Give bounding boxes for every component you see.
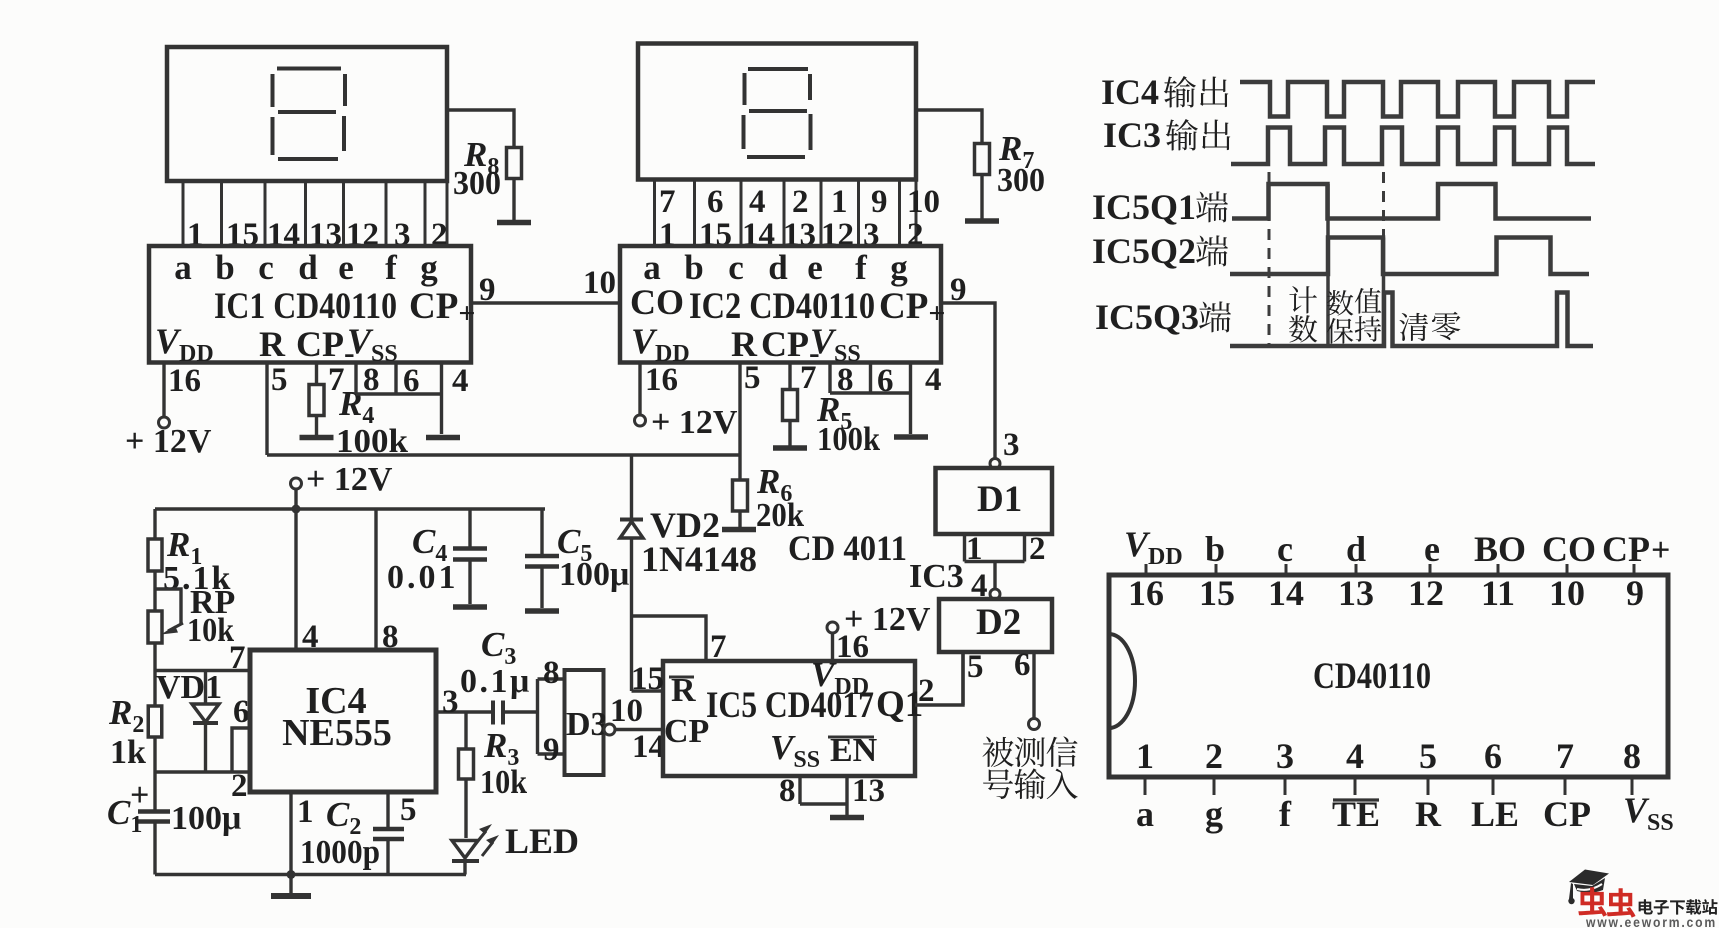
svg-text:12: 12 (1408, 573, 1444, 613)
ground under C4 (453, 604, 487, 610)
svg-text:2: 2 (1029, 531, 1046, 567)
svg-text:5: 5 (1419, 736, 1437, 776)
svg-text:1: 1 (297, 794, 314, 830)
svg-text:d: d (298, 248, 318, 287)
svg-text:8: 8 (382, 619, 399, 655)
svg-text:8: 8 (837, 362, 854, 398)
svg-text:e: e (1424, 529, 1440, 569)
resistor R5 on IC2 pin7 (788, 363, 791, 390)
resistor R4 on IC1 pin7 (315, 363, 318, 385)
svg-text:9: 9 (871, 184, 888, 220)
resistor R7 (916, 110, 982, 144)
svg-text:7: 7 (800, 360, 817, 396)
wire IC5 Q1 to gate D2 pin5 (915, 652, 963, 705)
power rail +12V (155, 507, 545, 510)
wire IC4 pin6 jog (232, 728, 250, 772)
svg-text:6: 6 (877, 363, 894, 399)
svg-text:e: e (807, 248, 823, 287)
wire reset bus R line (267, 453, 740, 456)
svg-text:6: 6 (233, 694, 250, 730)
watermark site name characters (1639, 899, 1653, 914)
svg-text:100μ: 100μ (559, 556, 629, 593)
ground rail bottom (155, 873, 466, 876)
gate D2 box (939, 599, 1052, 652)
wire IC1 pins 8,6 bracket to pin 4 (356, 363, 442, 435)
svg-text:g: g (1205, 794, 1223, 834)
svg-text:NE555: NE555 (282, 712, 392, 754)
svg-text:CD40110: CD40110 (1313, 656, 1431, 697)
svg-text:5: 5 (744, 360, 761, 396)
LED diode (452, 841, 478, 859)
svg-text:CD 4011: CD 4011 (788, 528, 907, 568)
svg-text:2: 2 (792, 184, 809, 220)
watermark graduation cap logo (1568, 870, 1609, 905)
ground under C5 (525, 608, 559, 614)
svg-text:1: 1 (1136, 736, 1154, 776)
terminal +12V IC1 (159, 417, 170, 428)
wire IC2 pin5 R down to R6 (738, 363, 741, 481)
svg-text:8: 8 (363, 362, 380, 398)
gate D1 box (936, 468, 1053, 534)
svg-text:3: 3 (1003, 427, 1020, 463)
junction dot ground rail (287, 870, 296, 879)
wire node to IC4 pin2 (155, 770, 250, 773)
svg-text:CP: CP (1602, 529, 1650, 569)
svg-text:b: b (684, 248, 703, 287)
display DS2 digit segments (744, 69, 811, 157)
dashed marker line count start (1268, 172, 1271, 346)
svg-text:4: 4 (452, 363, 469, 399)
svg-text:3: 3 (1276, 736, 1294, 776)
svg-text:10k: 10k (187, 612, 234, 649)
svg-text:e: e (338, 248, 354, 287)
CD40110 bottom pin numbers 1-8 (1136, 736, 1641, 776)
svg-text:LED: LED (505, 821, 579, 861)
svg-text:1: 1 (831, 184, 848, 220)
junction dot rail (292, 505, 301, 514)
wire VD2 node to IC5 pin15 (632, 689, 664, 692)
svg-text:IC3: IC3 (1103, 115, 1161, 155)
svg-text:c: c (258, 248, 274, 287)
svg-text:R: R (731, 324, 758, 364)
label count region (1289, 286, 1317, 313)
svg-text:LE: LE (1471, 794, 1519, 834)
IC2 pin labels 1 15 14 13 12 3 2 (659, 217, 924, 253)
svg-text:4: 4 (925, 362, 942, 398)
wire bus display DS2 to IC2 pins (655, 180, 917, 247)
terminal +12V rail (291, 478, 302, 489)
svg-text:+ 12V: + 12V (125, 423, 212, 460)
display DS1 (7-segment) box (167, 47, 447, 181)
waveform IC4 output (1240, 82, 1595, 117)
svg-text:+: + (130, 777, 149, 814)
svg-text:3: 3 (442, 684, 459, 720)
label signal input Chinese (982, 737, 1013, 767)
wire VD2 node to IC5 pin7 (632, 616, 707, 661)
svg-text:g: g (890, 248, 908, 287)
timer IC4 NE555 box (250, 650, 436, 792)
wire IC5 pins 8 13 to ground (800, 776, 847, 815)
svg-text:c: c (1277, 529, 1293, 569)
svg-text:1N4148: 1N4148 (641, 539, 757, 579)
waveform IC5 Q3 (1230, 293, 1593, 347)
CD40110 top pin numbers 16-9 (1128, 573, 1644, 613)
terminal +12V IC5 (827, 622, 838, 633)
svg-text:6: 6 (1484, 736, 1502, 776)
gate D3 output bubble (604, 724, 615, 735)
ground under R8 (497, 220, 531, 226)
svg-text:D2: D2 (976, 602, 1021, 643)
svg-text:IC5Q2: IC5Q2 (1092, 231, 1196, 271)
marker line clear start (1382, 238, 1386, 347)
wire bus display DS1 to IC1 pins (183, 181, 447, 246)
svg-text:7: 7 (229, 640, 246, 676)
svg-text:g: g (420, 248, 438, 287)
wire +12V to IC4 pin4 (294, 509, 297, 650)
display DS2 (7-segment) box (638, 44, 916, 180)
capacitor C2 on IC4 pin5 (386, 792, 389, 829)
resistor R3 (464, 712, 467, 749)
display DS2 pin labels 7 6 4 2 1 9 10 (659, 184, 940, 220)
svg-text:16: 16 (168, 363, 201, 399)
svg-text:8: 8 (1623, 736, 1641, 776)
IC1 segment pin letters a-g (174, 248, 438, 287)
svg-text:7: 7 (710, 629, 727, 665)
terminal pin3 gate D1 (990, 459, 1000, 469)
svg-text:14: 14 (632, 729, 665, 765)
svg-text:6: 6 (707, 184, 724, 220)
display DS1 digit segments (273, 69, 346, 160)
svg-text:4: 4 (302, 619, 319, 655)
svg-text:2: 2 (231, 768, 248, 804)
svg-text:b: b (215, 248, 234, 287)
CD40110 bottom pin stubs (1145, 777, 1632, 795)
LED arrows (473, 831, 486, 847)
svg-text:BO: BO (1474, 529, 1526, 569)
svg-text:11: 11 (1481, 573, 1515, 613)
wire rail to IC4 pin8 (374, 509, 377, 650)
wire D2 pin5 to IC5 Q1 (961, 652, 964, 705)
svg-text:f: f (385, 248, 397, 287)
svg-text:f: f (1279, 794, 1292, 834)
svg-text:1k: 1k (110, 734, 146, 771)
svg-text:2: 2 (1205, 736, 1223, 776)
svg-text:D3: D3 (566, 706, 608, 743)
resistor R6 (733, 480, 748, 511)
svg-text:+ 12V: + 12V (651, 404, 738, 441)
CD40110 package box (1109, 575, 1668, 777)
svg-text:15: 15 (1199, 573, 1235, 613)
svg-text:IC5Q3: IC5Q3 (1095, 297, 1199, 337)
svg-text:8: 8 (543, 655, 560, 691)
wire node to IC4 pin7 (155, 669, 250, 672)
label hold region (1327, 290, 1353, 316)
resistor R2 (148, 706, 162, 737)
svg-text:1: 1 (966, 531, 983, 567)
terminal signal input (1029, 719, 1040, 730)
svg-text:0.01: 0.01 (387, 559, 459, 596)
svg-text:CP: CP (664, 713, 709, 750)
waveform IC5 Q2 (1230, 238, 1589, 275)
wire IC4 pin1 to ground rail (289, 792, 292, 875)
svg-text:0.1μ: 0.1μ (460, 663, 532, 700)
wire RP to R2 (153, 643, 156, 706)
svg-text:10: 10 (610, 693, 643, 729)
ground under IC5 (830, 815, 864, 821)
diode VD1 (204, 671, 207, 704)
label clear region (1399, 313, 1428, 341)
wire IC1 CP+ to IC2 CO (471, 301, 620, 304)
potentiometer RP (153, 571, 156, 611)
svg-text:300: 300 (997, 162, 1045, 199)
svg-text:9: 9 (1626, 573, 1644, 613)
svg-text:16: 16 (1128, 573, 1164, 613)
gate D1 pins 1 2 bracket (965, 534, 1025, 562)
svg-text:d: d (768, 248, 788, 287)
svg-text:www.eeworm.com: www.eeworm.com (1585, 915, 1717, 928)
CD40110 bottom pin names (1136, 794, 1591, 834)
svg-text:13: 13 (852, 773, 885, 809)
terminal pin4 gate D2 (990, 589, 1000, 599)
svg-text:IC3: IC3 (909, 558, 964, 595)
svg-text:CO: CO (630, 282, 684, 322)
svg-text:6: 6 (403, 363, 420, 399)
wire D3 output to IC5 CP (615, 728, 664, 731)
svg-text:VD1: VD1 (156, 669, 222, 706)
svg-text:10k: 10k (480, 764, 527, 801)
svg-text:8: 8 (779, 773, 796, 809)
svg-text:D1: D1 (977, 479, 1022, 520)
capacitor C4 (468, 509, 471, 548)
svg-text:7: 7 (1556, 736, 1574, 776)
svg-text:4: 4 (1346, 736, 1364, 776)
capacitor C1 polarized (153, 772, 156, 812)
label TE overline (1333, 798, 1379, 801)
marker line count end (1326, 184, 1330, 346)
wire D2 pin6 to input terminal (1032, 652, 1035, 719)
wire IC2 pin16 to +12V terminal (638, 363, 641, 416)
svg-text:R: R (259, 324, 286, 364)
svg-text:IC5Q1: IC5Q1 (1092, 187, 1196, 227)
svg-text:10: 10 (583, 265, 616, 301)
svg-text:d: d (1346, 529, 1366, 569)
svg-text:CP: CP (1543, 794, 1591, 834)
pin labels 1 15 14 13 12 3 2 (187, 217, 448, 253)
ground under IC1 pin4 (426, 435, 460, 441)
svg-text:13: 13 (1338, 573, 1374, 613)
svg-text:CO: CO (1542, 529, 1596, 569)
svg-text:2: 2 (918, 673, 935, 709)
counter IC2 CD40110 box (620, 246, 941, 363)
wire IC4 pin3 output (436, 710, 493, 713)
svg-text:R: R (1415, 794, 1442, 834)
ground symbol bottom (289, 875, 292, 895)
svg-text:IC2 CD40110: IC2 CD40110 (689, 286, 875, 327)
gate D3 box (565, 670, 604, 775)
svg-text:1000p: 1000p (300, 834, 380, 871)
svg-text:IC4: IC4 (1101, 72, 1159, 112)
wire IC2 pins 8,6 bracket to pin 4 (830, 363, 911, 435)
svg-text:+: + (1651, 532, 1670, 569)
resistor R8 (447, 110, 514, 148)
ground under R5 (773, 445, 807, 451)
svg-text:100k: 100k (817, 421, 880, 458)
resistor R1 (153, 509, 156, 539)
ground under R4 (300, 435, 334, 441)
svg-text:5: 5 (271, 362, 288, 398)
svg-text:300: 300 (453, 165, 501, 202)
CD40110 notch (1109, 634, 1135, 728)
capacitor C5 (540, 509, 543, 555)
svg-text:100μ: 100μ (171, 800, 241, 837)
waveform IC5 Q1 (1232, 184, 1591, 219)
IC2 segment pin letters a-g (643, 248, 908, 287)
svg-text:c: c (728, 248, 744, 287)
CD40110 top pin stubs (1146, 564, 1634, 575)
wire IC1 pin5 R down to bus (265, 363, 268, 456)
svg-text:a: a (1136, 794, 1154, 834)
svg-text:a: a (174, 248, 192, 287)
svg-text:b: b (1205, 529, 1225, 569)
svg-text:4: 4 (749, 184, 766, 220)
svg-text:6: 6 (1014, 647, 1031, 683)
svg-text:16: 16 (836, 629, 869, 665)
ground under R6 (722, 527, 756, 533)
svg-text:5: 5 (967, 649, 984, 685)
gate D3 input wires (538, 679, 565, 754)
svg-text:10: 10 (907, 184, 940, 220)
watermark chongchong red characters (1578, 887, 1607, 916)
svg-text:9: 9 (543, 732, 560, 768)
svg-text:16: 16 (645, 362, 678, 398)
svg-text:f: f (855, 248, 867, 287)
diode VD2 (630, 455, 633, 520)
CD40110 top pin names (1205, 529, 1650, 569)
dashed marker line hold end (1382, 172, 1385, 236)
op IC1 CD40110 box (149, 246, 471, 363)
ground under IC2 pin4 (894, 434, 928, 440)
svg-text:10: 10 (1549, 573, 1585, 613)
waveform IC3 output (1231, 128, 1595, 165)
wire IC1 pin16 to +12V terminal (162, 363, 165, 418)
ground under R7 (965, 218, 999, 224)
wire D1 to D2 (993, 562, 996, 590)
capacitor C3 (491, 701, 495, 725)
svg-text:+ 12V: + 12V (306, 461, 393, 498)
svg-text:14: 14 (1268, 573, 1304, 613)
svg-text:7: 7 (659, 184, 676, 220)
terminal +12V IC2 (635, 415, 646, 426)
counter IC5 CD4017 box (663, 661, 915, 776)
svg-text:5: 5 (400, 792, 417, 828)
wire IC2 CP+ pin9 down to gate D1 (941, 303, 995, 458)
